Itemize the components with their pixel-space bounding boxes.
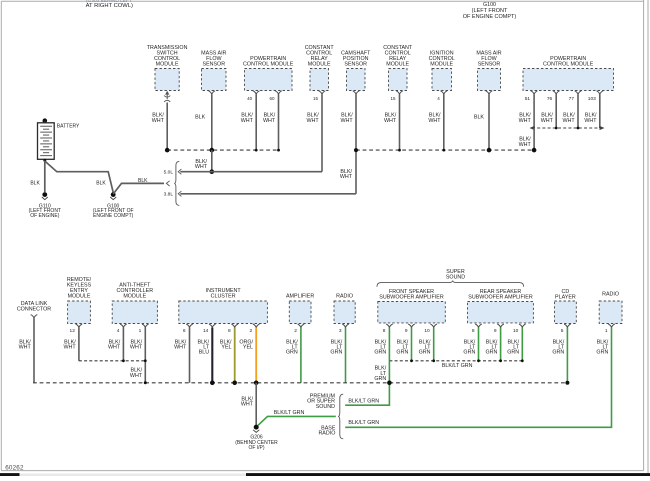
- pin 1 ATC: [139, 328, 142, 334]
- svg-text:2: 2: [250, 328, 253, 334]
- svg-text:WHT: WHT: [541, 118, 554, 124]
- wire PCM1 pin40 BLK/WHT: [241, 94, 256, 150]
- junction dot ATC pin1 at bus: [144, 381, 147, 384]
- svg-text:WHT: WHT: [108, 344, 121, 350]
- svg-text:SENSOR: SENSOR: [203, 61, 226, 67]
- svg-text:MODULE: MODULE: [430, 61, 453, 67]
- svg-text:YEL: YEL: [221, 344, 231, 350]
- svg-text:MODULE: MODULE: [308, 61, 331, 67]
- svg-text:51: 51: [525, 96, 531, 102]
- pin 14 cluster: [203, 328, 209, 334]
- svg-text:WHT: WHT: [241, 118, 254, 124]
- svg-text:AT RIGHT COWL): AT RIGHT COWL): [86, 3, 133, 9]
- svg-text:1: 1: [605, 328, 608, 334]
- module PCM (left) - Powertrain Control Module: [243, 56, 294, 95]
- pin 4 ATC: [117, 328, 120, 334]
- pin 15 CCRM2: [390, 96, 396, 101]
- svg-text:5: 5: [561, 328, 564, 334]
- data link connector (off-page arrow): [17, 301, 51, 318]
- module Rear Speaker Subwoofer Amplifier: [468, 289, 534, 328]
- wire MAF1 BLK: [195, 94, 212, 150]
- module Amplifier: [286, 294, 314, 328]
- module Anti-Theft Controller Module: [112, 283, 157, 328]
- svg-text:OF ENGINE): OF ENGINE): [30, 213, 60, 219]
- svg-text:WHT: WHT: [384, 118, 397, 124]
- wire PCM1 pin60 BLK/WHT: [263, 94, 278, 150]
- svg-text:SUBWOOFER AMPLIFIER: SUBWOOFER AMPLIFIER: [468, 294, 533, 300]
- wire ICM BLK/WHT: [428, 94, 443, 150]
- svg-text:103: 103: [588, 96, 596, 102]
- svg-text:10: 10: [424, 328, 430, 334]
- svg-text:WHT: WHT: [174, 344, 187, 350]
- svg-text:AMPLIFIER: AMPLIFIER: [286, 294, 314, 300]
- module CCRM 1 - Constant Control Relay Module: [305, 45, 335, 95]
- svg-text:WHT: WHT: [195, 164, 208, 170]
- label BLK/LT GRN premium line: [348, 399, 379, 405]
- junction dot MAF1 at splice: [210, 148, 215, 153]
- wire camshaft sensor BLK/WHT down to 3.8L line: [341, 94, 356, 193]
- wire FSA pin10 BLK/LT GRN: [419, 328, 434, 361]
- svg-text:15: 15: [313, 96, 319, 101]
- pin 12 RKE: [70, 328, 76, 334]
- wire battery to G110 BLK: [30, 161, 44, 193]
- svg-text:SOUND: SOUND: [316, 404, 335, 410]
- junction dot camshaft wire at splice: [354, 148, 358, 152]
- svg-text:GRN: GRN: [596, 349, 608, 355]
- wire 5.0L BLK/WHT horizontal: [178, 169, 322, 174]
- svg-text:BLU: BLU: [199, 349, 210, 355]
- splice S1 dashed line (right segment): [356, 149, 534, 152]
- pin 76 PCM2: [547, 96, 553, 102]
- diagram number 60262: [5, 464, 24, 471]
- module MAF sensor (right): [476, 50, 501, 94]
- junction dot cluster pin14 at bus: [210, 381, 215, 386]
- wire FSA pin8 BLK/LT GRN: [374, 328, 389, 361]
- svg-text:GRN: GRN: [396, 349, 408, 355]
- svg-text:BATTERY: BATTERY: [57, 124, 80, 130]
- svg-text:8: 8: [228, 328, 231, 334]
- battery B1: [38, 118, 55, 161]
- svg-text:SUBWOOFER AMPLIFIER: SUBWOOFER AMPLIFIER: [379, 294, 444, 300]
- module MAF sensor (left): [201, 50, 226, 94]
- pin 10 RSA: [513, 328, 519, 334]
- module CD Player: [555, 289, 577, 328]
- svg-text:MODULE: MODULE: [68, 294, 91, 300]
- wire 3.8L BLK/WHT horizontal: [178, 191, 356, 196]
- wire RSA pin8 BLK/LT GRN: [463, 328, 478, 361]
- svg-text:OF ENGINE COMPT): OF ENGINE COMPT): [463, 14, 517, 20]
- module Radio (left): [334, 294, 355, 328]
- svg-text:BLK: BLK: [96, 181, 106, 187]
- wire bus drop to G206 BLK/WHT: [241, 383, 256, 425]
- super sound brace: [377, 281, 524, 287]
- svg-text:SENSOR: SENSOR: [344, 61, 367, 67]
- module Front Speaker Subwoofer Amplifier: [378, 289, 446, 328]
- wire G100 to engine brace BLK: [113, 178, 169, 194]
- wire PCM2 splice drop BLK/WHT: [519, 128, 534, 150]
- svg-text:15: 15: [390, 96, 396, 101]
- ground G110: [29, 192, 61, 219]
- pin 1 radio2: [605, 328, 608, 334]
- wire MAF2 BLK: [474, 94, 489, 150]
- ground G100: [93, 192, 134, 219]
- svg-text:40: 40: [247, 96, 253, 101]
- module Camshaft Position Sensor: [341, 50, 371, 94]
- wire CD player BLK/LT GRN: [552, 328, 567, 383]
- splice S1 dashed line (left segment): [167, 149, 280, 152]
- wire PCM2 pin51 BLK/WHT: [519, 94, 534, 128]
- wire G206 to radio brace BLK/LT GRN: [258, 410, 336, 426]
- module CCRM 2 - Constant Control Relay Module: [383, 45, 413, 95]
- junction dot on 5.0L wire: [210, 169, 215, 174]
- pin 15 CCRM1: [313, 96, 319, 101]
- svg-text:BLK/LT GRN: BLK/LT GRN: [348, 399, 379, 405]
- note AT RIGHT COWL: [86, 3, 133, 9]
- svg-text:77: 77: [569, 96, 575, 102]
- label BATTERY: [57, 124, 80, 130]
- svg-text:6: 6: [183, 328, 186, 334]
- svg-text:5.0L: 5.0L: [164, 169, 174, 175]
- pin 2 amplifier: [294, 328, 297, 334]
- pin 103 PCM2: [588, 96, 596, 102]
- wire radio2 BLK/LT GRN to base radio line: [345, 328, 611, 428]
- svg-text:CONTROL MODULE: CONTROL MODULE: [243, 61, 294, 67]
- splice dashed FSA-RSA BLK/LT GRN: [389, 359, 523, 369]
- pin 9 RSA: [494, 328, 497, 334]
- svg-text:1: 1: [139, 328, 142, 334]
- svg-text:WHT: WHT: [307, 118, 320, 124]
- wire RSA pin10 BLK/LT GRN: [507, 328, 522, 361]
- svg-text:GRN: GRN: [463, 349, 475, 355]
- pin 5 CD player: [561, 328, 564, 334]
- junction dot PCM2 drop at splice: [532, 148, 537, 153]
- pin 8 FSA: [383, 328, 386, 334]
- pin 2 cluster: [250, 328, 253, 334]
- svg-text:PLAYER: PLAYER: [555, 294, 576, 300]
- wire radio1 BLK/LT GRN: [330, 328, 345, 383]
- svg-text:RADIO: RADIO: [336, 294, 353, 300]
- svg-text:SENSOR: SENSOR: [478, 61, 501, 67]
- pin 60 PCM1: [269, 96, 275, 101]
- label BLK/WHT on ATC pin1 drop: [130, 368, 143, 379]
- svg-text:3: 3: [339, 328, 342, 334]
- svg-text:BLK/LT GRN: BLK/LT GRN: [348, 420, 379, 426]
- wire FSA pin8 drop BLK/LT GRN to premium line: [345, 361, 389, 405]
- svg-text:CLUSTER: CLUSTER: [211, 294, 236, 300]
- svg-text:WHT: WHT: [64, 344, 77, 350]
- pin 8 RSA: [472, 328, 475, 334]
- module PCM (right) - Powertrain Control Module: [523, 56, 614, 95]
- svg-text:SOUND: SOUND: [446, 274, 465, 280]
- svg-text:CONNECTOR: CONNECTOR: [17, 307, 51, 313]
- pin 77 PCM2: [569, 96, 575, 102]
- pin 40 PCM1: [247, 96, 253, 101]
- wire FSA pin9 BLK/LT GRN: [396, 328, 411, 361]
- ground label G100 (top right): [463, 2, 517, 20]
- wire RKE pin12 BLK/WHT: [64, 328, 79, 361]
- svg-text:WHT: WHT: [340, 174, 353, 180]
- wire cluster pin6 BLK/WHT: [174, 328, 189, 383]
- svg-text:BLK/LT GRN: BLK/LT GRN: [274, 410, 305, 416]
- svg-text:GRN: GRN: [374, 376, 386, 382]
- module Ignition Control Module: [429, 50, 455, 94]
- label 3.8L: [164, 192, 174, 198]
- svg-text:60262: 60262: [5, 464, 24, 471]
- label SUPER SOUND: [446, 269, 465, 281]
- svg-text:GRN: GRN: [374, 349, 386, 355]
- svg-text:WHT: WHT: [341, 118, 354, 124]
- svg-text:76: 76: [547, 96, 553, 102]
- wire CCRM2 BLK/WHT: [384, 94, 399, 150]
- svg-text:MODULE: MODULE: [156, 61, 179, 67]
- svg-text:OF I/P): OF I/P): [248, 445, 264, 451]
- wire amplifier BLK/LT GRN: [286, 328, 301, 383]
- wire cluster pin14 BLK/LT BLU: [198, 328, 213, 383]
- label PREMIUM OR SUPER SOUND: [307, 393, 335, 410]
- junction dot cluster pin8 at bus: [232, 381, 237, 386]
- svg-text:GRN: GRN: [286, 349, 298, 355]
- wire PCM2 pin76 BLK/WHT: [541, 94, 556, 128]
- svg-text:CONTROL MODULE: CONTROL MODULE: [543, 61, 594, 67]
- wire DLC BLK/WHT: [19, 318, 34, 383]
- svg-text:60: 60: [269, 96, 275, 101]
- svg-text:10: 10: [513, 328, 519, 334]
- wire battery to G100 BLK: [45, 162, 113, 193]
- svg-text:9: 9: [405, 328, 408, 334]
- wire cluster pin2 ORG/YEL: [239, 328, 256, 383]
- pin 6 cluster: [183, 328, 186, 334]
- ground G206: [235, 425, 278, 452]
- pin 51 PCM2: [525, 96, 531, 102]
- svg-text:WHT: WHT: [519, 118, 532, 124]
- svg-text:3.8L: 3.8L: [164, 192, 174, 198]
- svg-text:WHT: WHT: [563, 118, 576, 124]
- pin 9 FSA: [405, 328, 408, 334]
- svg-text:WHT: WHT: [241, 402, 254, 408]
- svg-text:4: 4: [117, 328, 120, 334]
- radio option brace: [338, 394, 343, 439]
- engine-variant brace: [174, 161, 179, 205]
- connector arrow under TSCM: [164, 91, 170, 102]
- svg-text:ENGINE COMPT): ENGINE COMPT): [93, 213, 134, 219]
- splice bus inside PCM2 (dashed with arrows): [530, 126, 605, 130]
- svg-text:GRN: GRN: [507, 349, 519, 355]
- wire TSCM BLK/WHT: [152, 103, 167, 151]
- svg-text:WHT: WHT: [130, 373, 143, 379]
- module Radio (right): [599, 292, 622, 328]
- pin 10 FSA: [424, 328, 430, 334]
- svg-text:WHT: WHT: [263, 118, 276, 124]
- label 5.0L: [164, 169, 174, 175]
- wire splice drop BLK/WHT to 5.0L wire: [195, 150, 212, 172]
- svg-text:RADIO: RADIO: [602, 292, 619, 298]
- wire CCRM1 BLK/WHT down to 5.0L line: [307, 94, 322, 171]
- svg-text:BLK: BLK: [474, 114, 485, 120]
- wire PCM2 pin77 BLK/WHT: [563, 94, 578, 128]
- junction dot cluster pin2 at bus: [254, 381, 259, 386]
- wire ATC pin1 BLK/WHT: [130, 328, 145, 383]
- wire RSA pin9 BLK/LT GRN: [486, 328, 501, 361]
- svg-text:GRN: GRN: [419, 349, 431, 355]
- svg-text:8: 8: [472, 328, 475, 334]
- svg-text:BLK: BLK: [195, 114, 206, 120]
- junction dot MAF2 at splice: [487, 148, 492, 153]
- splice dashed RKE-ATC: [79, 359, 147, 362]
- svg-text:G100: G100: [483, 2, 496, 8]
- wire cluster pin8 BLK/YEL: [220, 328, 235, 383]
- pin 4 ICM: [437, 96, 440, 101]
- svg-text:BLK/LT GRN: BLK/LT GRN: [442, 363, 473, 369]
- svg-text:8: 8: [383, 328, 386, 334]
- module TSCM - Transmission Switch Control Module: [147, 45, 188, 91]
- junction dot FSA pin8 at bus: [387, 381, 392, 386]
- label BASE RADIO: [318, 426, 335, 437]
- svg-text:GRN: GRN: [552, 349, 564, 355]
- pin 3 radio1: [339, 328, 342, 334]
- module Remote/Keyless Entry Module: [67, 277, 92, 328]
- wire ATC pin4 BLK/WHT: [108, 328, 123, 361]
- svg-text:14: 14: [203, 328, 209, 334]
- junction dot TSCM at splice: [165, 148, 170, 153]
- svg-text:BLK: BLK: [30, 181, 40, 187]
- svg-text:WHT: WHT: [19, 344, 32, 350]
- splice main ground bus dashed: [33, 382, 567, 384]
- svg-text:WHT: WHT: [584, 118, 597, 124]
- module Instrument Cluster: [179, 288, 268, 328]
- svg-text:WHT: WHT: [130, 344, 143, 350]
- svg-text:GRN: GRN: [330, 349, 342, 355]
- svg-text:YEL: YEL: [243, 344, 253, 350]
- svg-text:GRN: GRN: [486, 349, 498, 355]
- svg-text:2: 2: [294, 328, 297, 334]
- svg-text:MODULE: MODULE: [123, 294, 146, 300]
- svg-text:12: 12: [70, 328, 76, 334]
- svg-text:WHT: WHT: [428, 118, 441, 124]
- label BLK/WHT on camshaft drop: [340, 169, 353, 180]
- svg-text:MODULE: MODULE: [386, 61, 409, 67]
- svg-text:WHT: WHT: [152, 118, 165, 124]
- junction dot CD player at bus end: [565, 381, 569, 385]
- svg-text:WHT: WHT: [519, 142, 532, 148]
- pin 8 cluster: [228, 328, 231, 334]
- note top-left (clipped line): [86, 0, 132, 4]
- bottom window strip: [0, 473, 650, 476]
- label BLK/LT GRN base line: [348, 420, 379, 426]
- wire PCM2 pin103 BLK/WHT: [584, 94, 599, 128]
- svg-text:RADIO: RADIO: [318, 431, 335, 437]
- svg-text:9: 9: [494, 328, 497, 334]
